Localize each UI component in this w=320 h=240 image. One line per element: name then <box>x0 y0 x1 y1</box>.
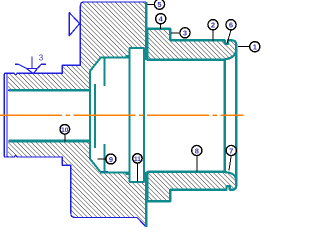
left end outer face line <box>3 74 5 156</box>
leader 5 <box>148 3 155 5</box>
svg-text:3: 3 <box>183 29 187 38</box>
balloon 4 <box>156 14 166 24</box>
leader 9 <box>97 158 105 160</box>
balloon 11 <box>133 154 142 163</box>
cup bore end face <box>224 60 226 172</box>
balloon 7 <box>226 145 236 155</box>
chamber face upper <box>104 59 106 87</box>
cup upper half (teal part) <box>148 29 237 60</box>
balloon 8 <box>192 145 202 155</box>
svg-text:9: 9 <box>109 155 113 164</box>
svg-text:11: 11 <box>134 156 141 163</box>
svg-text:1: 1 <box>253 43 257 52</box>
balloon 6 <box>226 20 236 30</box>
svg-text:5: 5 <box>157 0 161 9</box>
svg-text:10: 10 <box>61 127 69 134</box>
left end chamfer line <box>6 74 8 157</box>
balloon 5 <box>154 0 164 9</box>
left end face white sliver <box>3 74 8 156</box>
centerline <box>0 114 244 116</box>
shaft shoulder face <box>89 72 91 159</box>
weld triangle symbol <box>69 13 79 36</box>
balloon 1 <box>250 42 260 52</box>
pin hole left wall <box>129 48 131 182</box>
shaft top chamfer cone <box>90 58 101 71</box>
balloon 3 <box>180 28 190 38</box>
pin hole bottom cap <box>130 181 144 183</box>
shaft top surface small dia <box>9 89 90 92</box>
balloon 9 <box>106 154 116 164</box>
shaft bottom surface small dia <box>9 140 90 143</box>
flange body upper half (blue part) <box>5 2 146 90</box>
svg-text:3: 3 <box>39 54 44 63</box>
leader 10 <box>64 135 66 142</box>
flange body lower half (blue part) <box>5 141 146 227</box>
svg-text:7: 7 <box>229 146 233 155</box>
leader 2 <box>212 30 214 41</box>
washer face <box>94 84 96 148</box>
leader 6 <box>227 30 231 44</box>
surface finish symbol <box>15 57 46 74</box>
balloon 2 <box>208 20 218 30</box>
leader 11 <box>136 164 138 182</box>
pin hole right wall <box>143 48 145 182</box>
shaft step jog bottom <box>127 172 130 174</box>
mating face line upper <box>145 2 147 60</box>
shaft bottom surface large dia <box>100 171 130 173</box>
mating face line lower <box>145 172 147 227</box>
svg-text:6: 6 <box>229 21 233 30</box>
balloon 10 <box>60 125 70 135</box>
shaft step jog top <box>127 56 130 58</box>
leader 1 <box>238 46 250 48</box>
svg-text:2: 2 <box>211 21 215 30</box>
shaft top surface large dia <box>100 57 130 59</box>
leader 7 <box>229 156 231 171</box>
leader 8 <box>196 156 198 172</box>
chamber face lower <box>104 144 106 172</box>
leader 4 <box>160 24 162 29</box>
svg-text:8: 8 <box>195 146 199 155</box>
cup lower half (teal part) <box>148 172 237 202</box>
cup right end face <box>235 46 238 185</box>
shaft bottom chamfer cone <box>90 159 101 172</box>
leader 3 <box>171 32 180 34</box>
pin hole top cap <box>130 47 144 49</box>
